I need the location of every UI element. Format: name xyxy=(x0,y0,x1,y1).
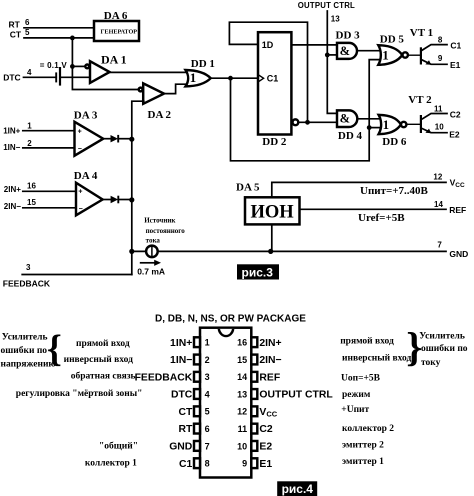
node DD1 output junction xyxy=(228,76,233,81)
or-gate DD1 xyxy=(186,70,211,86)
svg-text:10: 10 xyxy=(237,441,247,451)
pin 13 stub xyxy=(251,389,257,399)
comparator DA3 xyxy=(75,122,104,156)
svg-text:6: 6 xyxy=(205,424,210,434)
svg-text:DD 4: DD 4 xyxy=(338,130,363,142)
node DA3 diode junction xyxy=(129,137,134,142)
transistor VT1 base bar xyxy=(420,47,422,64)
svg-text:"общий": "общий" xyxy=(99,440,138,451)
op-amp DA1 input bubble xyxy=(85,65,89,69)
svg-text:Uоп=+5В: Uоп=+5В xyxy=(341,374,381,384)
svg-text:DD 2: DD 2 xyxy=(262,136,287,148)
svg-text:1: 1 xyxy=(27,121,32,130)
current source bar xyxy=(151,246,153,257)
svg-text:GND: GND xyxy=(169,442,193,453)
wire DD1 output down and across to output gates xyxy=(231,60,381,161)
svg-text:DA 5: DA 5 xyxy=(236,182,260,194)
svg-text:11: 11 xyxy=(238,424,248,434)
svg-text:16: 16 xyxy=(237,338,247,348)
wire sawtooth vertical xyxy=(72,38,138,90)
node sawtooth to DA1 xyxy=(70,64,75,69)
pin 11 stub xyxy=(251,424,257,434)
svg-text:13: 13 xyxy=(237,389,247,399)
wire ION to GND xyxy=(271,224,273,251)
svg-text:11: 11 xyxy=(434,105,443,114)
svg-text:10: 10 xyxy=(435,123,444,132)
pin 15 stub xyxy=(251,355,257,365)
pin 7 stub xyxy=(194,441,200,451)
svg-text:&: & xyxy=(340,112,350,126)
wire DD3 to DD5 xyxy=(357,50,381,52)
flip-flop DD2 xyxy=(258,32,291,134)
svg-text:1IN+: 1IN+ xyxy=(170,338,192,349)
svg-text:9: 9 xyxy=(242,459,247,469)
pin 16 stub xyxy=(251,337,257,347)
transistor VT1 collector xyxy=(422,45,447,51)
svg-text:DA 1: DA 1 xyxy=(101,53,127,67)
svg-text:2: 2 xyxy=(205,355,210,365)
wire bus to current source xyxy=(132,250,146,252)
svg-text:2IN+: 2IN+ xyxy=(4,185,21,194)
DD5 output bubble xyxy=(403,52,408,57)
svg-text:&: & xyxy=(340,44,350,58)
wire 1IN- xyxy=(23,147,75,149)
op-amp DA2 input bubble xyxy=(139,88,143,92)
svg-text:+: + xyxy=(78,189,82,196)
and-gate DD3 xyxy=(337,43,357,59)
svg-text:C1: C1 xyxy=(267,74,279,84)
wire ION to REF xyxy=(300,208,447,210)
wire DTC to battery xyxy=(24,76,57,78)
svg-text:DTC: DTC xyxy=(3,72,20,82)
svg-text:CT: CT xyxy=(178,407,193,418)
wire DA3 to diode xyxy=(103,138,110,140)
IC body xyxy=(200,328,251,478)
battery 0.1V short plate xyxy=(55,72,57,82)
node ION ground junction xyxy=(268,249,273,254)
svg-text:коллектор 2: коллектор 2 xyxy=(342,424,394,434)
svg-text:3: 3 xyxy=(205,372,210,382)
wire DA2 output to DD1 lower input xyxy=(164,84,188,93)
svg-text:DD 6: DD 6 xyxy=(382,136,407,148)
node Qbar feedback junction xyxy=(305,120,310,125)
svg-text:+: + xyxy=(78,129,82,136)
svg-text:DTC: DTC xyxy=(171,390,193,401)
and-gate DD4 xyxy=(337,110,357,127)
diode VD2 xyxy=(111,196,119,203)
svg-text:15: 15 xyxy=(27,198,36,207)
svg-text:2IN−: 2IN− xyxy=(259,355,281,366)
wire diode2 to bus xyxy=(118,199,132,201)
op-amp DA2 xyxy=(143,83,164,103)
svg-text:7: 7 xyxy=(205,441,210,451)
svg-text:VT 2: VT 2 xyxy=(408,94,432,106)
IC notch xyxy=(219,329,233,336)
svg-text:1: 1 xyxy=(190,70,197,85)
transistor VT2 collector xyxy=(422,114,447,120)
svg-text:Uref=+5В: Uref=+5В xyxy=(358,212,405,224)
svg-text:току: току xyxy=(421,358,441,368)
svg-text:VT 1: VT 1 xyxy=(410,27,433,39)
voltage reference DA5 box xyxy=(245,197,300,224)
svg-text:1: 1 xyxy=(382,47,389,62)
svg-text:14: 14 xyxy=(434,200,443,209)
wire 2IN+ xyxy=(23,190,76,192)
battery 0.1V long plate xyxy=(59,67,61,86)
svg-text:DA 3: DA 3 xyxy=(74,109,98,121)
svg-text:FEEDBACK: FEEDBACK xyxy=(135,372,193,383)
DD6 output bubble xyxy=(401,122,406,127)
wire DD6 to VT2 base xyxy=(406,123,420,125)
svg-text:FEEDBACK: FEEDBACK xyxy=(3,278,51,288)
comparator DA4 xyxy=(76,183,103,216)
svg-text:RT: RT xyxy=(9,20,21,30)
svg-text:GND: GND xyxy=(449,249,468,259)
wire sawtooth to DA1 bubble xyxy=(72,65,85,67)
pin 6 stub xyxy=(194,424,200,434)
svg-text:Усилитель: Усилитель xyxy=(419,331,465,341)
wire OUTPUT CTRL to DD3 lower input xyxy=(327,54,337,56)
DD2 inverted output bubble xyxy=(293,119,299,125)
svg-text:Источник: Источник xyxy=(144,217,176,225)
svg-text:D, DB, N, NS, OR PW PACKAGE: D, DB, N, NS, OR PW PACKAGE xyxy=(155,313,306,324)
svg-text:обратная связь: обратная связь xyxy=(71,370,136,381)
svg-text:рис.4: рис.4 xyxy=(282,482,314,496)
wire DA1 output to DD1 xyxy=(110,71,188,73)
svg-text:DA 4: DA 4 xyxy=(74,170,98,182)
wire pwm to DD6 lower input xyxy=(369,127,380,129)
svg-text:тока: тока xyxy=(146,236,161,244)
current arrow xyxy=(140,262,156,264)
svg-text:C2: C2 xyxy=(259,424,273,435)
clock input triangle C1 xyxy=(258,75,264,82)
svg-text:OUTPUT CTRL: OUTPUT CTRL xyxy=(298,1,355,10)
pin 3 stub xyxy=(194,372,200,382)
wire DA4 to diode xyxy=(103,199,111,201)
pin 2 stub xyxy=(194,355,200,365)
pin 12 stub xyxy=(251,406,257,416)
pin 14 stub xyxy=(251,372,257,382)
node CT junction xyxy=(70,36,75,41)
svg-text:REF: REF xyxy=(259,372,280,383)
svg-text:E2: E2 xyxy=(449,129,460,139)
svg-text:Uпит=+7..40В: Uпит=+7..40В xyxy=(360,185,429,197)
pin 9 stub xyxy=(251,458,257,468)
svg-text:12: 12 xyxy=(237,407,247,417)
pin 5 stub xyxy=(194,406,200,416)
svg-text:14: 14 xyxy=(237,372,247,382)
nor-gate DD6 xyxy=(379,115,401,134)
svg-text:6: 6 xyxy=(25,18,30,27)
wire DD4 to DD6 xyxy=(357,118,381,120)
svg-text:2IN−: 2IN− xyxy=(4,202,21,211)
svg-text:1: 1 xyxy=(205,338,210,348)
svg-text:+Uпит: +Uпит xyxy=(341,405,369,415)
svg-text:= 0.1 V: = 0.1 V xyxy=(40,61,68,70)
svg-text:OUTPUT CTRL: OUTPUT CTRL xyxy=(259,390,333,401)
svg-text:4: 4 xyxy=(27,68,32,77)
svg-text:регулировка "мёртвой зоны": регулировка "мёртвой зоны" xyxy=(16,388,143,399)
svg-text:DD 3: DD 3 xyxy=(336,29,361,41)
wire current source to GND xyxy=(158,250,446,252)
svg-text:DD 5: DD 5 xyxy=(380,33,405,45)
svg-text:рис.3: рис.3 xyxy=(242,266,274,280)
fig4 label box xyxy=(277,481,317,496)
svg-text:3: 3 xyxy=(26,263,31,272)
wire OUTPUT CTRL vertical xyxy=(327,11,337,113)
svg-text:1: 1 xyxy=(383,117,390,132)
svg-text:5: 5 xyxy=(25,28,30,37)
svg-text:REF: REF xyxy=(449,205,466,215)
svg-text:прямой вход: прямой вход xyxy=(340,336,394,347)
wire feedback bus vertical xyxy=(132,101,144,274)
svg-text:8: 8 xyxy=(205,459,210,469)
svg-text:2: 2 xyxy=(27,139,32,148)
wire CT to generator xyxy=(24,37,94,39)
svg-text:8: 8 xyxy=(438,35,443,44)
svg-text:режим: режим xyxy=(342,390,371,400)
svg-text:CT: CT xyxy=(10,30,22,40)
svg-text:15: 15 xyxy=(237,355,247,365)
wire 1IN+ xyxy=(23,130,75,132)
svg-text:инверсный вход: инверсный вход xyxy=(342,352,412,363)
svg-text:16: 16 xyxy=(27,182,36,191)
current source circle xyxy=(146,246,158,258)
wire DD2 Qbar to DD4 xyxy=(298,121,337,123)
transistor VT2 base bar xyxy=(420,115,422,133)
svg-text:E1: E1 xyxy=(259,459,272,470)
node current source junction xyxy=(129,249,134,254)
svg-text:4: 4 xyxy=(205,389,210,399)
svg-text:ошибки по: ошибки по xyxy=(421,343,468,354)
transistor VT2 emitter xyxy=(422,128,447,132)
diode VD1 xyxy=(111,135,119,142)
svg-text:1IN−: 1IN− xyxy=(170,355,192,366)
wire DD1 output to DD2 C1 xyxy=(211,77,258,79)
svg-text:0.7 mA: 0.7 mA xyxy=(137,267,165,277)
op-amp DA1 xyxy=(90,61,110,83)
pin 10 stub xyxy=(251,441,257,451)
generator DA6 box xyxy=(94,21,139,41)
svg-text:эмиттер 1: эмиттер 1 xyxy=(342,457,384,467)
svg-text:DA 2: DA 2 xyxy=(148,109,172,121)
svg-text:DD 1: DD 1 xyxy=(191,58,215,70)
svg-text:ИОН: ИОН xyxy=(251,203,295,223)
svg-text:ошибки по: ошибки по xyxy=(1,345,48,356)
pin 1 stub xyxy=(194,337,200,347)
node OUTPUT CTRL to DD3 xyxy=(325,53,330,58)
svg-text:13: 13 xyxy=(331,15,340,24)
svg-text:коллектор 1: коллектор 1 xyxy=(85,459,137,469)
svg-text:постоянного: постоянного xyxy=(146,227,186,235)
wire DD5 to VT1 base xyxy=(408,54,420,56)
svg-text:1IN−: 1IN− xyxy=(3,143,20,152)
svg-text:{: { xyxy=(47,328,62,370)
svg-text:1D: 1D xyxy=(262,40,274,50)
wire battery to DA1 xyxy=(60,76,91,78)
VT1 emitter arrow xyxy=(425,60,431,65)
wire diode to bus xyxy=(118,138,132,140)
svg-text:−: − xyxy=(79,206,83,213)
svg-text:7: 7 xyxy=(437,240,442,249)
svg-text:C2: C2 xyxy=(450,109,461,119)
wire DD2 Q output to DD3 xyxy=(291,44,337,46)
svg-text:1IN+: 1IN+ xyxy=(3,126,20,135)
svg-text:5: 5 xyxy=(205,407,210,417)
node DA4 diode junction xyxy=(129,197,134,202)
wire ION to VCC xyxy=(272,182,446,197)
nor-gate DD5 xyxy=(378,45,402,65)
svg-text:C1: C1 xyxy=(450,41,461,51)
pin 8 stub xyxy=(194,458,200,468)
svg-text:−: − xyxy=(78,146,82,153)
svg-text:12: 12 xyxy=(433,172,442,181)
wire 2IN- xyxy=(23,207,76,209)
transistor VT1 emitter xyxy=(422,60,447,65)
svg-text:эмиттер 2: эмиттер 2 xyxy=(342,440,384,450)
fig3 label box xyxy=(237,264,279,279)
pin 4 stub xyxy=(194,389,200,399)
svg-text:E1: E1 xyxy=(450,60,461,70)
svg-text:инверсный вход: инверсный вход xyxy=(64,354,134,365)
svg-text:E2: E2 xyxy=(259,442,272,453)
svg-text:Усилитель: Усилитель xyxy=(2,333,48,343)
svg-text:ГЕНЕРАТОР: ГЕНЕРАТОР xyxy=(101,29,138,36)
svg-text:C1: C1 xyxy=(179,459,193,470)
svg-text:RT: RT xyxy=(178,424,193,435)
svg-text:DA 6: DA 6 xyxy=(104,10,128,22)
wire FEEDBACK xyxy=(22,274,132,276)
svg-text:9: 9 xyxy=(438,54,443,63)
node pwm to DD6 junction xyxy=(367,125,372,130)
VT2 emitter arrow xyxy=(425,129,431,134)
wire feedback 1D loop xyxy=(229,22,307,122)
svg-text:2IN+: 2IN+ xyxy=(259,338,281,349)
wire RT to generator xyxy=(24,27,94,29)
svg-text:прямой вход: прямой вход xyxy=(76,338,130,349)
